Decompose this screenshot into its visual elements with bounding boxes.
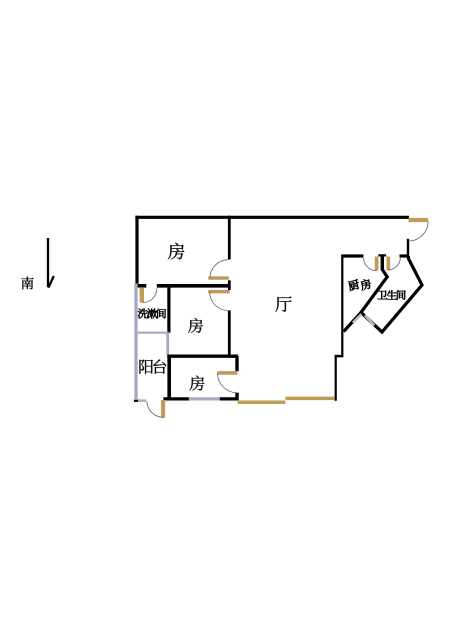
balcony right lavender — [166, 333, 169, 355]
kitchen door left arc — [364, 258, 377, 271]
bathroom wall path — [361, 256, 422, 332]
mid-room door leaf tan — [208, 290, 230, 293]
bathroom sliding door leaf — [365, 315, 374, 325]
kitchen top wall right seg — [400, 254, 409, 257]
bedroom bottom wall left black — [163, 397, 189, 400]
label washroom — [138, 309, 148, 319]
washroom door arc — [143, 288, 157, 302]
washroom+balcony left wall lavender — [134, 284, 137, 401]
hall bottom window tan1 — [238, 400, 286, 404]
hall-left wall upper seg — [228, 216, 231, 260]
wall jog — [335, 355, 344, 358]
top wall — [135, 216, 409, 219]
label balcony — [139, 360, 153, 374]
kitchen top wall left seg — [341, 254, 363, 257]
left wall upper room — [135, 216, 138, 284]
entrance side wall — [407, 239, 409, 258]
lower bedroom right wall lower — [235, 393, 238, 401]
label kitchen char2 — [359, 278, 372, 291]
balcony bottom black piece — [134, 399, 139, 402]
lower bedroom left wall — [167, 355, 171, 400]
label room upper — [168, 243, 185, 260]
wall band y286 piece1 — [135, 284, 146, 288]
kitchen door right arc — [388, 258, 400, 270]
south arrow — [48, 238, 54, 288]
hall-left wall door post — [228, 280, 231, 290]
hall-left wall lower seg — [228, 310, 231, 356]
bedroom bottom lavender window — [189, 397, 220, 400]
hall right-bottom wall — [335, 355, 337, 401]
label bathroom — [378, 291, 388, 300]
label hall — [275, 296, 291, 312]
entrance door arc — [409, 222, 429, 242]
balcony bottom lavender piece — [138, 399, 146, 401]
balcony door arc — [147, 401, 163, 417]
upper-room door leaf tan — [208, 276, 229, 279]
kitchen diagonal wall — [344, 312, 361, 331]
label kitchen char1 — [347, 279, 360, 292]
bedroom door leaf tan — [217, 371, 237, 375]
washroom door leaf tan — [140, 288, 144, 303]
label room middle — [188, 318, 203, 333]
lower bedroom right wall upper — [235, 356, 238, 371]
label room lower — [189, 376, 204, 391]
kitchen left wall — [341, 255, 343, 355]
washroom balcony divider lavender — [134, 332, 168, 334]
double-door center post — [381, 254, 384, 270]
bedroom bottom wall right black — [220, 397, 238, 400]
wall band y286 main — [157, 284, 230, 288]
double-door cap — [378, 254, 386, 256]
balcony door leaf tan — [161, 400, 165, 418]
entrance door leaf tan — [409, 218, 429, 222]
bedroom door arc — [218, 373, 238, 393]
washroom right wall — [167, 284, 170, 333]
hall bottom window tan2 — [285, 397, 334, 401]
label south — [21, 277, 33, 290]
upper-room door arc — [210, 260, 228, 278]
mid-bedroom bottom wall — [167, 355, 238, 358]
kitchen door right leaf tan — [386, 257, 390, 271]
kitchen sliding door leaf — [353, 314, 362, 323]
mid-room door arc — [210, 292, 229, 311]
kitchen door left leaf tan — [375, 257, 379, 271]
